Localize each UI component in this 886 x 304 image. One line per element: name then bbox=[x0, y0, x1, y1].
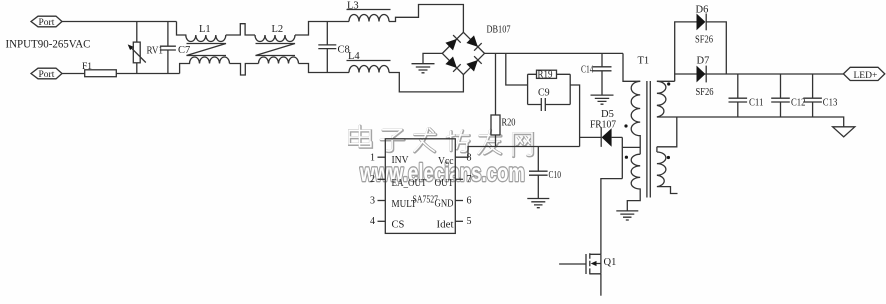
svg-text:C12: C12 bbox=[791, 98, 806, 109]
capacitor C9 bbox=[541, 98, 545, 111]
choke L2 coupling mark bbox=[256, 44, 296, 56]
svg-text:GND: GND bbox=[435, 199, 454, 210]
svg-text:1: 1 bbox=[370, 152, 375, 163]
svg-text:C14: C14 bbox=[581, 65, 594, 76]
T1 primary polarity dot bbox=[624, 124, 627, 127]
capacitor C10 bbox=[529, 147, 548, 199]
T1 secondary top lead to output rail bbox=[657, 80, 675, 82]
svg-text:8: 8 bbox=[467, 152, 472, 163]
ground at bridge negative bbox=[412, 64, 435, 73]
inductor L3 bbox=[349, 15, 389, 22]
svg-text:Vcc: Vcc bbox=[438, 156, 454, 167]
svg-text:Q1: Q1 bbox=[604, 257, 617, 268]
capacitor C13 bbox=[803, 74, 822, 117]
transformer T1 primary winding bbox=[631, 81, 640, 154]
inductor L4 bbox=[349, 66, 389, 73]
svg-text:C9: C9 bbox=[538, 88, 550, 99]
transformer T1 aux winding bbox=[627, 154, 640, 211]
IC pin 2 EA_OUT bbox=[378, 178, 386, 180]
bridge diode lower-right bbox=[466, 60, 478, 72]
IC pin 6 GND bbox=[455, 200, 463, 202]
watermark logo text 电子发烧友网 bbox=[349, 126, 533, 157]
svg-text:OUT: OUT bbox=[435, 178, 455, 189]
svg-text:L1: L1 bbox=[199, 24, 211, 35]
port P2 AC input bottom bbox=[31, 68, 62, 79]
snubber block frame bbox=[528, 74, 571, 104]
port LED+ bbox=[843, 67, 884, 80]
diode D7 SF26 bbox=[697, 66, 706, 83]
svg-text:R20: R20 bbox=[502, 118, 516, 129]
MOSFET Q1 bbox=[585, 254, 587, 274]
wire Vcc line with pin8 jog bbox=[455, 147, 579, 158]
capacitor C7 bbox=[160, 22, 176, 74]
wire secondary bottom winding to output return rail bbox=[657, 117, 677, 147]
LED- return symbol bbox=[833, 127, 855, 137]
port P1 AC input top bbox=[31, 16, 62, 27]
wire bridge negative to ground bbox=[423, 53, 442, 63]
transformer T1 secondary winding top bbox=[657, 81, 666, 117]
wire L2 to C8 top bbox=[295, 22, 349, 36]
wire output bottom rail bbox=[657, 117, 844, 127]
bridge diode upper-left bbox=[445, 39, 457, 51]
wire L3 to bridge top vertex bbox=[389, 5, 463, 33]
T1 secondary top polarity dot bbox=[667, 82, 670, 85]
T1 secondary bottom polarity dot bbox=[667, 156, 670, 159]
IC pin 3 MULT bbox=[378, 200, 386, 202]
svg-text:L3: L3 bbox=[347, 1, 359, 12]
svg-text:4: 4 bbox=[370, 216, 375, 227]
svg-text:7: 7 bbox=[467, 174, 472, 185]
svg-text:Port: Port bbox=[39, 70, 55, 80]
svg-text:CS: CS bbox=[392, 220, 405, 231]
wire top AC line bbox=[62, 21, 177, 23]
svg-text:F1: F1 bbox=[82, 62, 92, 72]
choke L2 bottom winding bbox=[259, 57, 299, 64]
svg-text:SF26: SF26 bbox=[695, 34, 713, 45]
ground at C14 bbox=[591, 95, 614, 104]
transformer T1 core bbox=[647, 81, 650, 198]
wire L2 to C8 bottom bbox=[299, 64, 350, 73]
svg-text:C11: C11 bbox=[749, 98, 764, 109]
svg-text:RV1: RV1 bbox=[147, 46, 164, 57]
IC pin 5 Idet bbox=[455, 220, 463, 222]
svg-text:6: 6 bbox=[467, 195, 472, 206]
svg-text:D7: D7 bbox=[697, 56, 710, 67]
T1 aux polarity dot bbox=[625, 156, 628, 159]
wire notch top between L1 and L2 bbox=[226, 24, 255, 35]
svg-text:T1: T1 bbox=[638, 56, 650, 67]
svg-text:INV: INV bbox=[392, 155, 409, 166]
svg-text:EA_OUT: EA_OUT bbox=[392, 178, 428, 189]
choke L1 coupling mark bbox=[187, 44, 227, 56]
capacitor C8 bbox=[318, 22, 336, 73]
fuse F1 bbox=[85, 70, 117, 77]
wire DC+ rail bbox=[485, 52, 624, 54]
svg-text:L2: L2 bbox=[272, 24, 284, 35]
svg-text:LED+: LED+ bbox=[854, 71, 878, 81]
svg-text:5: 5 bbox=[467, 216, 472, 227]
bridge diode lower-left bbox=[445, 57, 457, 69]
capacitor C14 bbox=[593, 53, 612, 95]
svg-text:3: 3 bbox=[370, 195, 375, 206]
svg-text:C13: C13 bbox=[823, 98, 838, 109]
bridge diode upper-right bbox=[466, 35, 478, 47]
svg-text:SF26: SF26 bbox=[696, 87, 714, 98]
wire output rail bbox=[675, 73, 844, 75]
svg-text:FR107: FR107 bbox=[590, 120, 616, 131]
svg-text:L4: L4 bbox=[348, 51, 360, 62]
capacitor C11 bbox=[729, 74, 748, 117]
svg-text:MULT: MULT bbox=[392, 199, 417, 210]
resistor R20 bbox=[495, 53, 497, 146]
capacitor C12 bbox=[771, 74, 790, 117]
choke L1 bottom winding bbox=[180, 57, 230, 74]
IC U1 SA7527 body bbox=[385, 139, 455, 234]
wire Q1 source bbox=[600, 274, 602, 296]
IC pin 1 INV bbox=[378, 156, 386, 158]
varistor RV1 bbox=[136, 22, 138, 74]
svg-text:Idet: Idet bbox=[437, 220, 454, 231]
wire notch bottom between L1 and L2 bbox=[230, 64, 259, 76]
wire snubber tap down from rail bbox=[506, 53, 528, 85]
wire Q1 gate bbox=[559, 263, 586, 265]
choke L2 top winding bbox=[255, 35, 295, 42]
wire rail down to T1 primary bbox=[623, 53, 640, 81]
diode D6 SF26 branch bbox=[675, 22, 727, 81]
svg-text:D6: D6 bbox=[696, 4, 709, 15]
wire snubber to D5 anode and Vcc line bbox=[570, 85, 601, 147]
transformer T1 secondary winding bottom bbox=[657, 147, 678, 194]
svg-text:2: 2 bbox=[370, 174, 375, 185]
wire bottom AC line bbox=[62, 73, 180, 75]
bridge rectifier DB107 bbox=[442, 32, 484, 74]
ground at T1 aux winding bbox=[616, 211, 638, 220]
IC pin 4 CS bbox=[378, 220, 386, 222]
svg-text:DB107: DB107 bbox=[487, 25, 511, 36]
svg-text:D5: D5 bbox=[601, 109, 614, 120]
IC pin 7 OUT bbox=[455, 178, 463, 180]
wire switch node bbox=[601, 137, 640, 254]
wire L4 to bridge bottom vertex bbox=[389, 73, 463, 92]
diode D5 FR107 bbox=[602, 128, 612, 146]
choke L1 top winding bbox=[177, 22, 226, 42]
svg-text:Port: Port bbox=[39, 18, 55, 28]
svg-text:C10: C10 bbox=[549, 170, 562, 181]
svg-text:INPUT90-265VAC: INPUT90-265VAC bbox=[6, 37, 91, 51]
resistor R19 bbox=[537, 70, 557, 78]
svg-text:R19: R19 bbox=[538, 70, 553, 81]
ground at C10 bbox=[527, 199, 549, 208]
